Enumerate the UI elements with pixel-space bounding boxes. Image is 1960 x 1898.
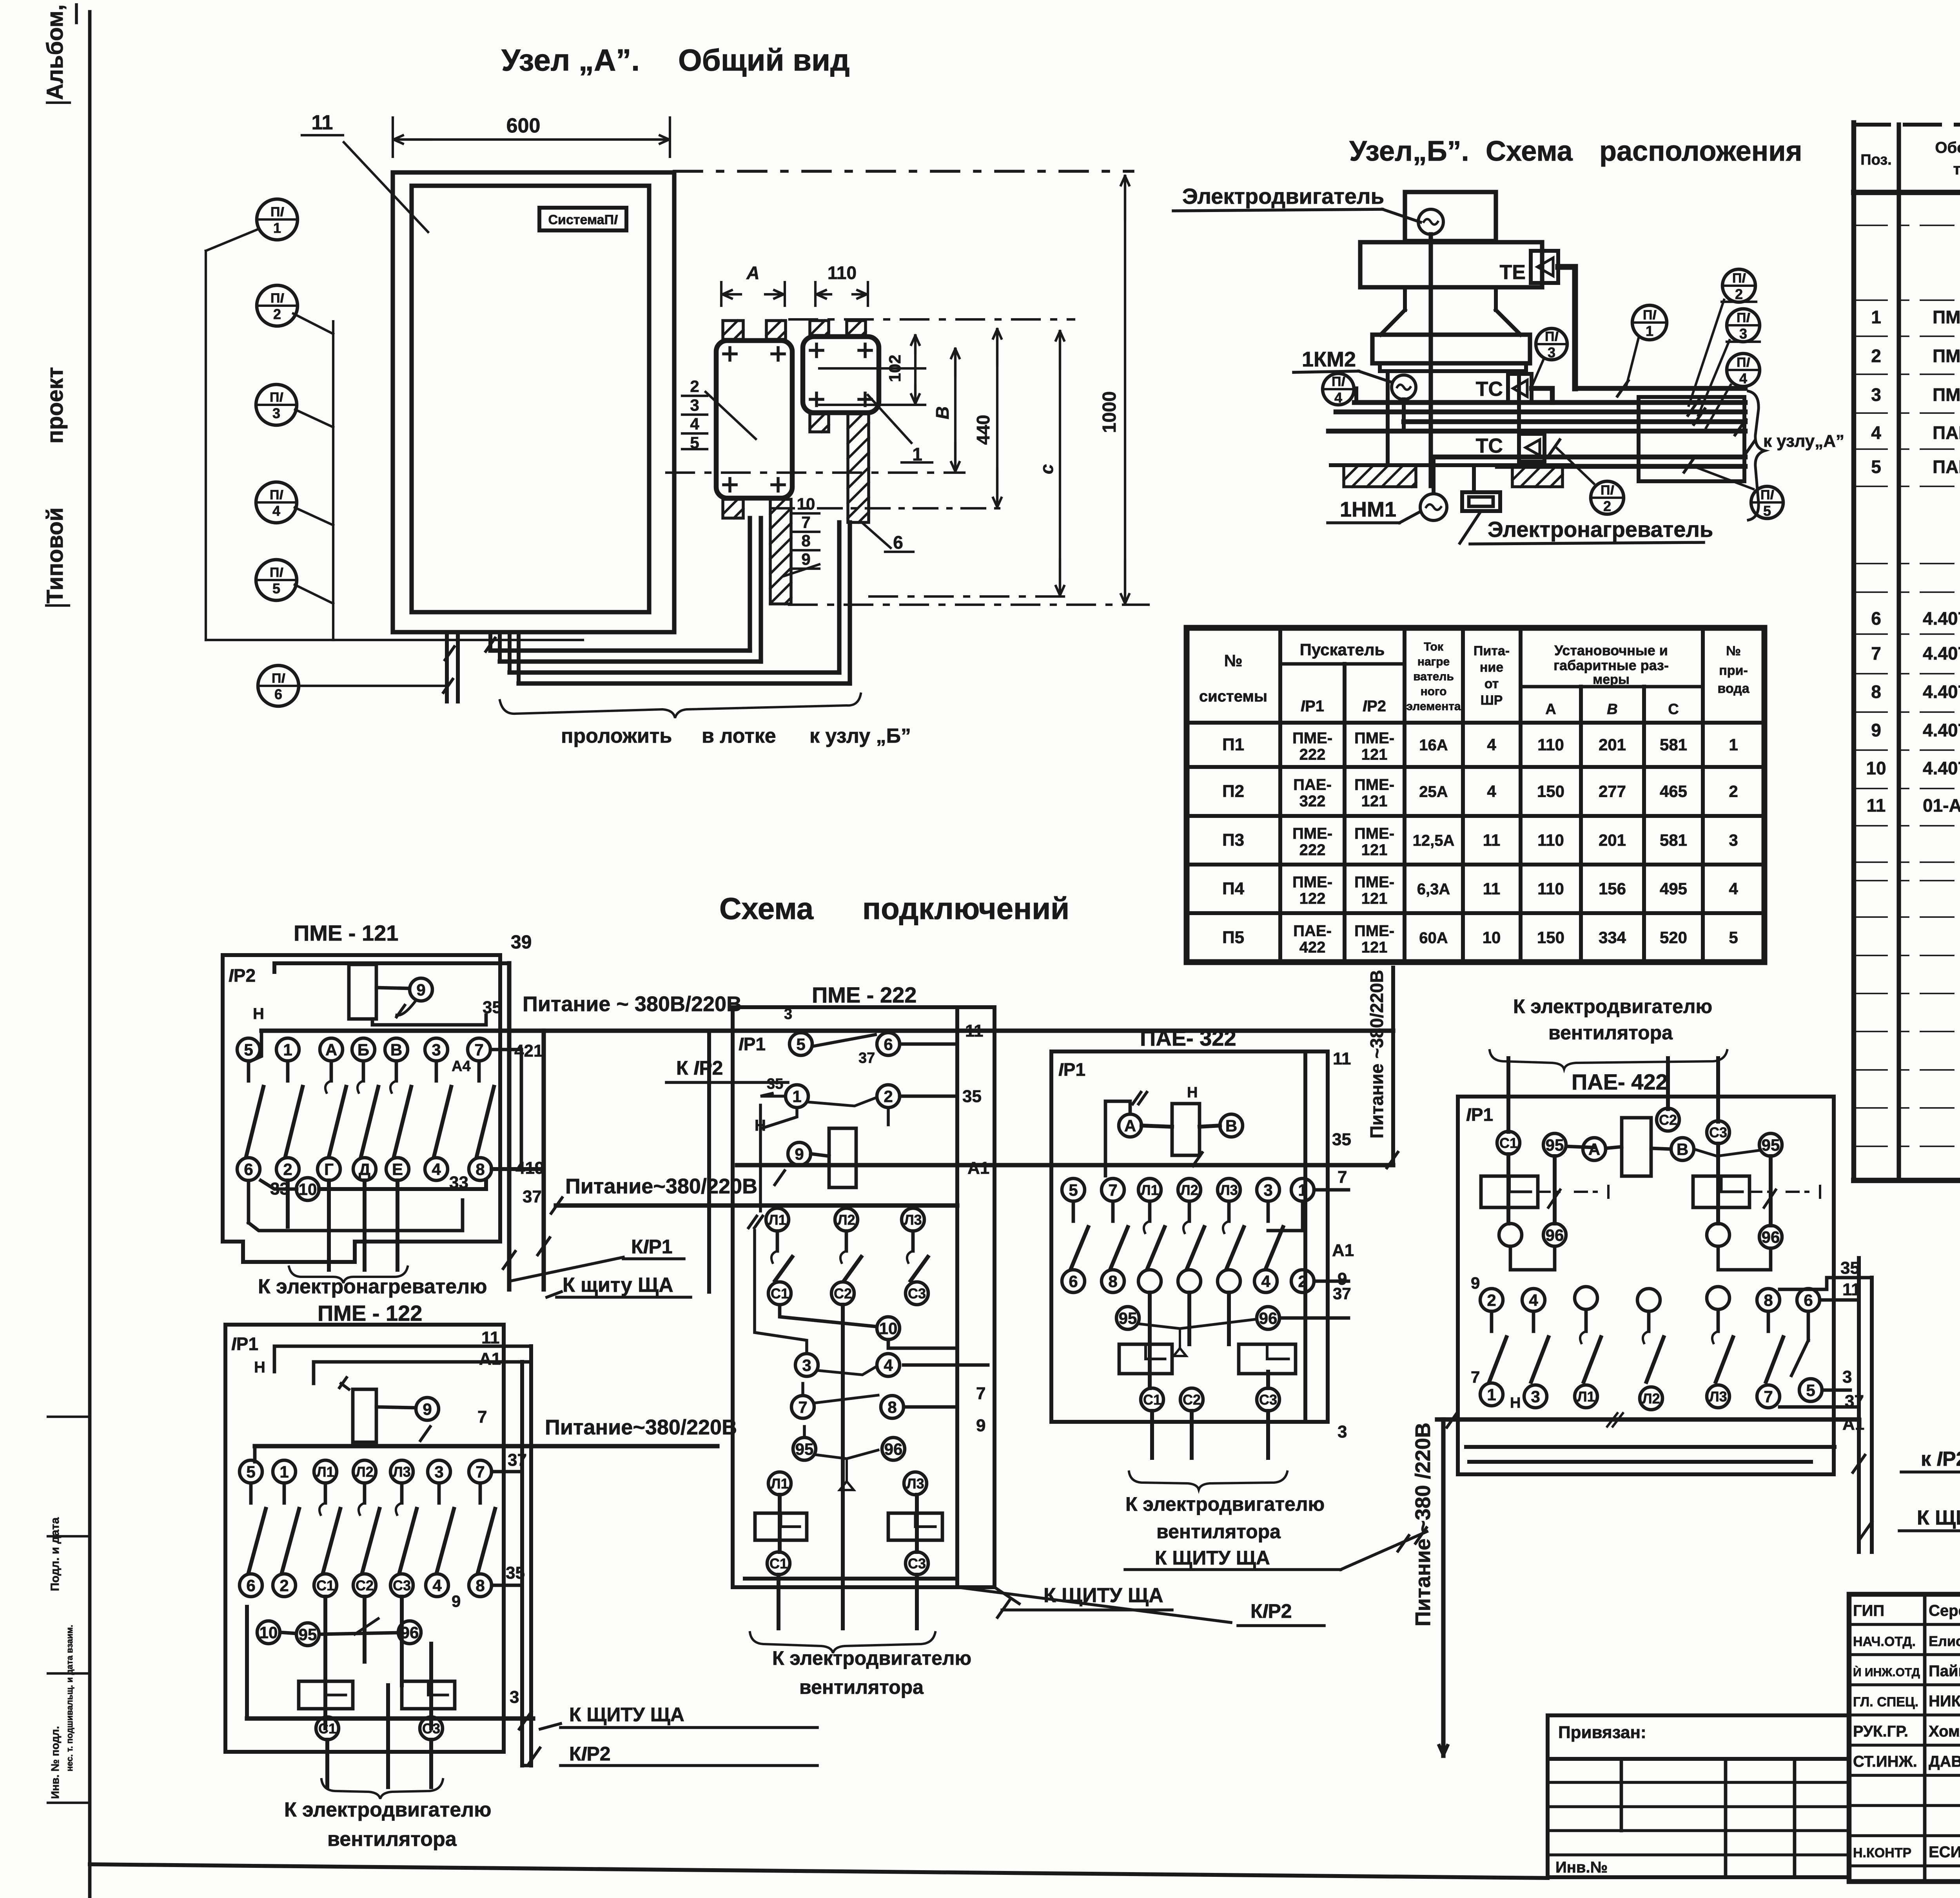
terminals C row PME-222 xyxy=(768,1282,791,1305)
svg-text:121: 121 xyxy=(1361,939,1388,956)
svg-text:6: 6 xyxy=(1871,608,1881,629)
svg-text:5: 5 xyxy=(796,1035,805,1053)
wire right connections PME-222 xyxy=(904,1363,988,1367)
svg-text:РУК.ГР.: РУК.ГР. xyxy=(1853,1723,1908,1740)
svg-text:Обозначение или: Обозначение или xyxy=(1935,139,1960,156)
node brace k uzlu A xyxy=(1748,391,1765,520)
svg-text:ПАЕ-: ПАЕ- xyxy=(1293,776,1332,794)
svg-text:ние: ние xyxy=(1480,660,1503,675)
terminal 10 PME-222 xyxy=(877,1317,900,1340)
terminal C3 PAE-422 xyxy=(1707,1121,1730,1144)
svg-text:НИКИТИН: НИКИТИН xyxy=(1929,1693,1960,1710)
svg-text:меры: меры xyxy=(1593,672,1630,687)
svg-text:581: 581 xyxy=(1660,736,1687,754)
svg-text:110: 110 xyxy=(1537,831,1564,849)
svg-text:С1: С1 xyxy=(1499,1135,1517,1151)
svg-text:Серебрякова: Серебрякова xyxy=(1929,1602,1960,1619)
svg-text:ПМЕ-: ПМЕ- xyxy=(1292,730,1332,747)
svg-text:1: 1 xyxy=(792,1087,801,1106)
svg-text:Альбом,: Альбом, xyxy=(42,4,68,100)
terminal 3 PAE-322 top xyxy=(1257,1178,1279,1201)
node label plate SistemaP1 xyxy=(539,208,626,230)
wire relay drops PAE-422 xyxy=(1506,1154,1510,1224)
node top-left corner tick xyxy=(75,5,78,23)
svg-text:нес. т. подшивальщ. и дата вза: нес. т. подшивальщ. и дата взаим. xyxy=(65,1625,74,1771)
svg-text:ПАЕ-: ПАЕ- xyxy=(1293,923,1332,940)
svg-text:ТС: ТС xyxy=(1476,378,1503,401)
wire trunk down PAE-422 xyxy=(1441,1419,1445,1756)
svg-text:Узел„Б”.: Узел„Б”. xyxy=(1349,136,1469,167)
terminal 4 PAE-422 mid xyxy=(1522,1289,1545,1311)
svg-text:222: 222 xyxy=(1299,841,1326,859)
svg-text:ПМЕ-222: ПМЕ-222 xyxy=(1933,384,1960,405)
svg-text:Елистратова: Елистратова xyxy=(1929,1633,1960,1649)
terminal 95a PAE-422 xyxy=(1543,1133,1566,1156)
terminal 2 PME-121 bottom xyxy=(276,1158,299,1180)
node systems table xyxy=(1187,628,1764,962)
node margin bottom small frames xyxy=(48,1416,90,1418)
svg-text:Привязан:: Привязан: xyxy=(1558,1723,1646,1742)
svg-text:1000: 1000 xyxy=(1099,391,1120,433)
wire motor leads below PME-122 xyxy=(325,1740,329,1787)
svg-text:С2: С2 xyxy=(834,1285,852,1302)
component coil KM PAE-422 xyxy=(1622,1118,1651,1176)
svg-text:156: 156 xyxy=(1599,879,1626,898)
terminal 1 PAE-322 top xyxy=(1291,1178,1314,1201)
svg-text:ПАЕ- 422: ПАЕ- 422 xyxy=(1572,1070,1668,1094)
terminal Л2 PAE-322 top xyxy=(1178,1178,1201,1201)
svg-text:Л1: Л1 xyxy=(316,1464,334,1480)
svg-text:9: 9 xyxy=(1871,720,1881,740)
svg-text:А1: А1 xyxy=(967,1158,989,1178)
wire bottom bus PME-122 xyxy=(247,1716,533,1720)
wire 10 link xyxy=(780,1305,877,1327)
svg-text:8: 8 xyxy=(475,1160,485,1178)
node brace prolozhit v lotke xyxy=(500,694,861,718)
svg-text:ПАЕ-322: ПАЕ-322 xyxy=(1933,422,1960,443)
svg-text:проект: проект xyxy=(42,367,68,444)
component PME-122 outer box xyxy=(225,1325,504,1752)
svg-text:5: 5 xyxy=(1763,503,1771,519)
wire coil risers PME-222 xyxy=(759,1105,762,1129)
svg-text:С1: С1 xyxy=(318,1720,336,1737)
svg-text:П2: П2 xyxy=(1222,782,1244,801)
svg-text:в лотке: в лотке xyxy=(702,725,776,747)
svg-text:6: 6 xyxy=(246,1576,255,1595)
node position circle P1-2 xyxy=(1722,269,1755,302)
svg-text:4: 4 xyxy=(884,1356,893,1374)
svg-text:С1: С1 xyxy=(771,1285,789,1302)
node label K schitu SchA PME-122 xyxy=(519,1712,532,1729)
svg-text:Л1: Л1 xyxy=(1577,1389,1595,1405)
svg-text:Питание ~380/220В: Питание ~380/220В xyxy=(1367,970,1387,1138)
svg-text:Электродвигатель: Электродвигатель xyxy=(1182,184,1384,208)
svg-text:С3: С3 xyxy=(1709,1124,1727,1140)
wire trunk 39 down xyxy=(507,963,511,1289)
switch poles PME-222 L-C xyxy=(776,1231,779,1251)
svg-text:ПІ: ПІ xyxy=(1737,355,1750,370)
svg-text:10: 10 xyxy=(1483,928,1501,947)
svg-text:5: 5 xyxy=(1871,457,1881,477)
svg-text:ПМЕ - 222: ПМЕ - 222 xyxy=(812,983,916,1007)
wire top bus 39 xyxy=(274,963,509,972)
wire motor leads above PAE-422 xyxy=(1506,1058,1510,1132)
svg-text:8: 8 xyxy=(1871,682,1881,702)
svg-text:6: 6 xyxy=(1804,1291,1813,1309)
svg-text:ПІ: ПІ xyxy=(1332,374,1345,389)
wire heater connections xyxy=(1402,399,1406,431)
svg-text:3: 3 xyxy=(434,1463,443,1481)
svg-text:К ЩИТУ ЩА: К ЩИТУ ЩА xyxy=(1044,1584,1163,1607)
svg-text:5: 5 xyxy=(272,580,280,596)
svg-text:П1: П1 xyxy=(1222,735,1244,754)
component relay boxes PAE-422 xyxy=(1481,1176,1538,1207)
svg-text:А4: А4 xyxy=(452,1058,471,1075)
dimension B xyxy=(954,349,956,376)
svg-text:7: 7 xyxy=(976,1384,985,1403)
svg-text:ПМЕ-122: ПМЕ-122 xyxy=(1933,346,1960,366)
component hatched stand bar below unit2 xyxy=(848,414,869,522)
terminal 96a PAE-422 xyxy=(1543,1224,1566,1246)
wire P1-6 leader xyxy=(299,685,447,687)
terminal 95 PAE-322 xyxy=(1116,1307,1139,1329)
svg-text:37: 37 xyxy=(858,1050,875,1066)
terminal 5 PAE-422 bottom xyxy=(1799,1379,1822,1401)
svg-text:102: 102 xyxy=(886,355,904,382)
component PME-222 outer box xyxy=(733,1007,995,1587)
terminal Л3 PAE-322 top xyxy=(1218,1178,1240,1201)
svg-text:ного: ного xyxy=(1421,685,1447,698)
svg-text:121: 121 xyxy=(1361,841,1388,859)
svg-text:2: 2 xyxy=(1487,1291,1496,1309)
svg-text:ІР1: ІР1 xyxy=(231,1334,258,1354)
svg-text:2: 2 xyxy=(1603,498,1611,514)
terminal 95b PAE-422 xyxy=(1759,1133,1782,1156)
component PAE-322 outer box xyxy=(1051,1051,1328,1422)
svg-text:37: 37 xyxy=(1333,1284,1351,1303)
terminal Л2 PME-122 top xyxy=(353,1460,376,1483)
svg-text:4.407- 229 - 033: 4.407- 229 - 033 xyxy=(1923,682,1960,702)
svg-text:1: 1 xyxy=(283,1041,292,1059)
terminal Г PME-121 bottom xyxy=(318,1158,340,1180)
svg-text:тип изделия: тип изделия xyxy=(1953,161,1960,178)
svg-text:1: 1 xyxy=(1487,1385,1496,1404)
wire: left sheet border line xyxy=(88,12,92,1898)
svg-text:110: 110 xyxy=(828,263,857,283)
svg-text:Пускатель: Пускатель xyxy=(1300,640,1385,659)
component thermal elements PME-122 xyxy=(299,1681,353,1709)
svg-text:С1: С1 xyxy=(1143,1392,1161,1408)
svg-text:ДАВЫДОВ: ДАВЫДОВ xyxy=(1929,1753,1960,1770)
svg-text:ПІ: ПІ xyxy=(272,671,285,686)
svg-text:А: А xyxy=(1124,1117,1136,1135)
svg-text:вентилятора: вентилятора xyxy=(327,1828,457,1851)
terminal 8 PME-122 bottom xyxy=(469,1574,492,1597)
svg-text:110: 110 xyxy=(1537,879,1564,898)
svg-text:9: 9 xyxy=(801,550,810,568)
svg-text:Е: Е xyxy=(392,1160,403,1178)
terminals L1 L3 lower PME-222 xyxy=(768,1472,791,1495)
svg-text:4.407- 229 - 033: 4.407- 229 - 033 xyxy=(1923,643,1960,663)
terminal C3 out PME-122 xyxy=(420,1717,443,1740)
svg-text:С3: С3 xyxy=(908,1285,926,1302)
svg-text:ІР2: ІР2 xyxy=(1363,698,1386,715)
svg-text:5: 5 xyxy=(1806,1381,1815,1399)
terminal Л1 PME-122 top xyxy=(314,1460,337,1483)
wire phase drops PME-222 xyxy=(778,1495,782,1552)
svg-text:95: 95 xyxy=(299,1625,317,1644)
terminal 6 PME-122 bottom xyxy=(240,1574,262,1597)
node position circle P1-2 xyxy=(257,285,298,326)
svg-text:8: 8 xyxy=(801,531,810,550)
dimension 102 xyxy=(914,335,916,353)
svg-text:ПІ: ПІ xyxy=(1732,271,1746,286)
terminal 1 PME-122 top xyxy=(273,1460,296,1483)
svg-text:2: 2 xyxy=(690,377,699,395)
component wall bracket hatched tabs unit2 xyxy=(810,321,829,335)
svg-text:вентилятора: вентилятора xyxy=(1548,1022,1673,1044)
terminal Л3 PME-122 top xyxy=(390,1460,413,1483)
svg-text:Н.КОНТР: Н.КОНТР xyxy=(1853,1845,1911,1860)
svg-text:Н: Н xyxy=(1187,1084,1198,1101)
terminal 4 PME-222 xyxy=(877,1354,900,1376)
svg-text:6: 6 xyxy=(893,532,903,553)
terminal С1 PME-122 bottom xyxy=(314,1574,337,1597)
svg-text:1: 1 xyxy=(1729,736,1738,754)
node label KIR2 PME-222 xyxy=(957,1587,1231,1622)
svg-text:С: С xyxy=(1668,701,1679,718)
svg-text:11: 11 xyxy=(1483,879,1500,898)
wire bottom leads PAE-322 xyxy=(1150,1411,1154,1458)
svg-text:Л2: Л2 xyxy=(356,1464,373,1480)
component coil KM PME-222 xyxy=(829,1128,856,1187)
wire 7 to trunk xyxy=(490,1048,521,1051)
svg-text:ПІ: ПІ xyxy=(1601,483,1614,498)
wire right connections PAE-422 xyxy=(1820,1298,1859,1302)
node privyazan table xyxy=(1548,1713,1849,1717)
svg-text:2: 2 xyxy=(1735,286,1743,302)
dimension 440 xyxy=(996,329,998,364)
svg-text:3: 3 xyxy=(1548,344,1555,361)
svg-text:2: 2 xyxy=(279,1576,289,1595)
svg-text:121: 121 xyxy=(1361,793,1388,810)
svg-text:нагре: нагре xyxy=(1417,655,1450,668)
svg-text:1НМ1: 1НМ1 xyxy=(1340,498,1396,521)
wire 6-5 pole PAE-422 xyxy=(1807,1311,1810,1340)
component coil KM PME-121 xyxy=(349,964,376,1019)
svg-text:к ІР2: к ІР2 xyxy=(1921,1448,1960,1470)
terminal 4 PME-121 bottom xyxy=(425,1158,448,1180)
svg-text:С1: С1 xyxy=(769,1555,788,1572)
svg-text:1: 1 xyxy=(1871,307,1881,327)
dimension 600 xyxy=(392,118,394,157)
svg-text:ПІ: ПІ xyxy=(1760,488,1774,502)
svg-text:4.407- 211 л.44: 4.407- 211 л.44 xyxy=(1923,758,1960,778)
terminal 1 PME-222 xyxy=(786,1085,808,1108)
component motor symbol 1NM1 xyxy=(1420,494,1447,520)
wire top buses PME-122 xyxy=(274,1346,531,1372)
svg-text:Л3: Л3 xyxy=(1709,1389,1727,1405)
component PAE-422 outer box xyxy=(1458,1097,1834,1474)
svg-text:С2: С2 xyxy=(356,1577,374,1593)
svg-text:К ІР2: К ІР2 xyxy=(676,1057,723,1079)
svg-text:8: 8 xyxy=(1108,1272,1117,1291)
svg-text:4: 4 xyxy=(1487,736,1496,754)
terminal 5 PME-122 top xyxy=(240,1460,262,1483)
node signature table xyxy=(1849,1594,1960,1882)
terminal 8 PME-222 xyxy=(881,1396,904,1418)
terminal 3 PME-122 top xyxy=(428,1460,450,1483)
svg-text:ПІ: ПІ xyxy=(270,488,283,502)
svg-text:1: 1 xyxy=(273,220,281,236)
svg-text:11: 11 xyxy=(1483,831,1500,849)
svg-text:4: 4 xyxy=(1487,782,1496,801)
svg-text:ПМЕ - 122: ПМЕ - 122 xyxy=(318,1301,422,1325)
svg-text:465: 465 xyxy=(1660,782,1687,801)
svg-text:КІР2: КІР2 xyxy=(1250,1600,1292,1622)
svg-text:Схема: Схема xyxy=(1486,136,1573,167)
svg-text:4: 4 xyxy=(1739,370,1747,386)
svg-text:4: 4 xyxy=(432,1160,441,1178)
svg-text:9: 9 xyxy=(423,1400,432,1418)
svg-text:7: 7 xyxy=(798,1398,807,1416)
wire riser x1809 xyxy=(707,1031,711,1292)
svg-text:Л2: Л2 xyxy=(1642,1390,1660,1407)
terminal 8 PAE-422 mid xyxy=(1757,1289,1780,1311)
svg-text:Б: Б xyxy=(358,1041,369,1059)
wire dash-dot mount line through units xyxy=(789,318,1074,321)
node position circle P1-4 xyxy=(256,482,297,523)
svg-text:В: В xyxy=(390,1041,402,1059)
svg-text:П5: П5 xyxy=(1222,928,1244,947)
terminal 2 PAE-322 bottom xyxy=(1291,1270,1314,1293)
svg-text:Л3: Л3 xyxy=(904,1212,922,1228)
svg-text:расположения: расположения xyxy=(1599,136,1802,167)
svg-text:6: 6 xyxy=(1069,1272,1078,1291)
terminal 4 PME-122 bottom xyxy=(426,1574,448,1597)
svg-text:ПМЕ-: ПМЕ- xyxy=(1354,874,1394,891)
node position circle P1-5 xyxy=(1751,486,1783,519)
svg-text:Питание~380/220В: Питание~380/220В xyxy=(565,1175,757,1198)
svg-text:от: от xyxy=(1485,676,1499,691)
svg-text:Хомяков: Хомяков xyxy=(1929,1723,1960,1740)
svg-text:95: 95 xyxy=(1119,1309,1137,1327)
terminal 95 PME-222 xyxy=(793,1438,816,1460)
svg-text:ТС: ТС xyxy=(1476,435,1503,457)
svg-text:С3: С3 xyxy=(1259,1392,1277,1408)
node brace k elektrodvigatelyu PME-122 xyxy=(321,1779,443,1799)
terminal C1 out PME-122 xyxy=(316,1717,339,1740)
component coil KM PAE-322 xyxy=(1172,1104,1200,1155)
svg-text:600: 600 xyxy=(506,114,541,137)
svg-text:габаритные раз-: габаритные раз- xyxy=(1553,657,1669,673)
svg-text:1: 1 xyxy=(279,1463,289,1481)
svg-text:3: 3 xyxy=(1842,1367,1852,1387)
terminal B PAE-422 xyxy=(1671,1138,1694,1160)
svg-text:96: 96 xyxy=(1546,1226,1564,1244)
svg-text:ПАЕ-422: ПАЕ-422 xyxy=(1933,457,1960,477)
svg-text:7: 7 xyxy=(1108,1181,1117,1199)
svg-text:60А: 60А xyxy=(1419,930,1448,947)
svg-text:ПМЕ-: ПМЕ- xyxy=(1292,825,1332,842)
component hatched stand bar below unit1 xyxy=(770,499,791,604)
node label K schitu SchA with leader xyxy=(547,1292,561,1297)
svg-text:ПМЕ - 121: ПМЕ - 121 xyxy=(294,921,398,945)
terminal 5 PME-222 xyxy=(789,1033,812,1055)
svg-text:7: 7 xyxy=(801,513,810,531)
wire internal risers PME-222 xyxy=(760,1108,797,1211)
component machine neck and funnel xyxy=(1403,287,1407,310)
svg-text:9: 9 xyxy=(452,1592,461,1610)
node break marks on bundle xyxy=(1688,400,1699,415)
svg-text:Установочные и: Установочные и xyxy=(1554,642,1668,658)
svg-text:№: № xyxy=(1224,651,1243,670)
svg-text:39: 39 xyxy=(511,932,532,953)
svg-text:К электродвигателю: К электродвигателю xyxy=(1513,995,1712,1017)
svg-text:ІР2: ІР2 xyxy=(229,965,256,986)
svg-text:Л1: Л1 xyxy=(1141,1182,1158,1198)
svg-text:4.407- 229 - 033: 4.407- 229 - 033 xyxy=(1923,608,1960,629)
svg-text:Н: Н xyxy=(254,1359,265,1376)
svg-text:№: № xyxy=(1726,644,1741,658)
svg-text:В: В xyxy=(1607,701,1617,718)
svg-text:КІР1: КІР1 xyxy=(631,1236,673,1258)
svg-text:5: 5 xyxy=(244,1041,253,1059)
component heater box xyxy=(1462,492,1500,511)
terminal 2 PME-122 bottom xyxy=(273,1574,296,1597)
svg-text:35: 35 xyxy=(962,1087,982,1106)
svg-text:95: 95 xyxy=(1762,1136,1780,1154)
node position circle P1-6 xyxy=(258,665,299,706)
svg-text:при-: при- xyxy=(1719,663,1748,678)
wire dashed centerline cabinet top xyxy=(674,170,1133,173)
terminal 1 PME-121 top xyxy=(276,1038,299,1061)
svg-text:35: 35 xyxy=(1332,1130,1351,1149)
svg-text:7: 7 xyxy=(474,1041,483,1059)
svg-text:ПІ: ПІ xyxy=(1545,329,1559,344)
node position circle P1-1 xyxy=(1632,305,1667,340)
component floor hatched left xyxy=(1344,465,1416,487)
component motor symbol M1 xyxy=(1418,209,1443,234)
svg-text:8: 8 xyxy=(887,1398,897,1416)
terminal Д PME-121 bottom xyxy=(353,1158,376,1180)
svg-text:3: 3 xyxy=(1338,1422,1347,1441)
svg-text:Л2: Л2 xyxy=(837,1212,855,1228)
svg-text:НАЧ.ОТД.: НАЧ.ОТД. xyxy=(1853,1634,1916,1649)
svg-text:ІР1: ІР1 xyxy=(1466,1104,1493,1125)
svg-text:10: 10 xyxy=(797,495,815,513)
wire bundle to uzel A four wires xyxy=(1354,400,1745,405)
svg-text:11: 11 xyxy=(965,1021,984,1041)
terminal Е PME-121 bottom xyxy=(386,1158,409,1180)
svg-text:4: 4 xyxy=(690,415,699,433)
svg-text:Питание~380/220В: Питание~380/220В xyxy=(545,1416,737,1439)
svg-text:3: 3 xyxy=(432,1041,441,1059)
svg-text:95: 95 xyxy=(795,1440,814,1458)
component PME-121 outer box xyxy=(223,955,500,1262)
dimension A xyxy=(720,282,722,306)
svg-text:96: 96 xyxy=(1762,1228,1780,1246)
svg-text:6: 6 xyxy=(244,1160,253,1178)
wire tray bundle to detail units xyxy=(490,648,750,653)
svg-text:4.407- 211 л.44: 4.407- 211 л.44 xyxy=(1923,720,1960,740)
svg-text:ІР1: ІР1 xyxy=(1301,698,1324,715)
component wall structure detail unit 1 xyxy=(716,341,792,498)
svg-text:201: 201 xyxy=(1599,736,1626,754)
svg-text:ШР: ШР xyxy=(1481,693,1503,708)
svg-text:Г: Г xyxy=(324,1160,334,1178)
svg-text:Л3: Л3 xyxy=(906,1476,924,1492)
